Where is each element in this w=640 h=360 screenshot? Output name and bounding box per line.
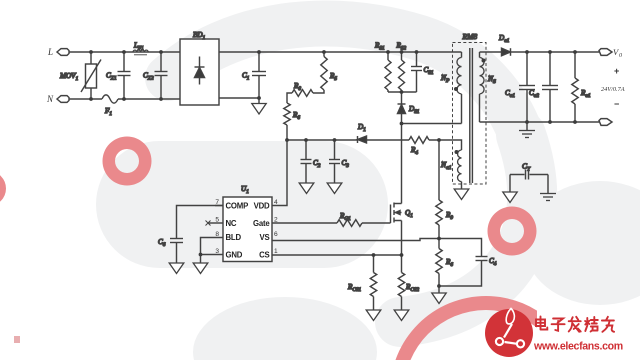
node N input terminal — [46, 94, 69, 104]
svg-text:VS: VS — [259, 233, 269, 242]
wire HV+ rail — [219, 51, 462, 53]
op-amp U1 controller IC — [215, 185, 278, 262]
resistor R10 — [436, 239, 454, 287]
bridge rectifier BD1 — [180, 31, 219, 105]
phase dot auxiliary — [455, 150, 459, 154]
transistor Q1 — [391, 203, 414, 256]
ground under GND pin — [193, 263, 208, 274]
ground under C6 — [169, 263, 184, 274]
wire snubber bus — [388, 91, 417, 93]
wire R8 to R6 — [287, 93, 292, 103]
pin 5 NC stub — [206, 221, 224, 226]
wire R5 to R8 — [313, 90, 324, 93]
capacitor C3 — [329, 140, 349, 183]
svg-text:6: 6 — [274, 231, 278, 238]
earth ground output — [526, 122, 528, 131]
diode DS1 — [398, 92, 420, 124]
wire drain to primary — [402, 94, 462, 124]
svg-text:Gate: Gate — [253, 219, 270, 228]
wire COMP to C6 — [177, 206, 224, 239]
resistor Ro1 — [572, 52, 591, 122]
svg-text:www.elecfans.com: www.elecfans.com — [533, 341, 623, 353]
winding Na auxiliary — [440, 150, 462, 189]
resistor RCS2 — [398, 255, 419, 310]
diode Do1 — [480, 34, 511, 56]
capacitor C1 — [242, 52, 266, 104]
pin 7 COMP stub — [215, 205, 223, 207]
ground under divider — [432, 293, 446, 304]
capacitor C2 — [301, 140, 321, 183]
wire aux node down — [438, 140, 440, 200]
wire D1 to R4 — [367, 139, 410, 141]
wire BLD to GND net — [201, 238, 224, 255]
svg-text:4: 4 — [274, 199, 278, 206]
svg-text:24V/0.7A: 24V/0.7A — [601, 86, 625, 93]
wire VDD pin drop — [272, 140, 287, 206]
ground under C3 — [327, 183, 342, 194]
winding Np primary — [440, 52, 462, 94]
resistor RS1 — [374, 42, 391, 93]
wire output + rail — [511, 51, 600, 53]
ground under C2 — [299, 183, 314, 194]
svg-text:GND: GND — [226, 250, 243, 259]
wire VDD rail — [287, 139, 357, 141]
wire bridge negative — [219, 97, 259, 99]
capacitor C6 — [158, 238, 183, 263]
resistor R5 — [321, 52, 338, 90]
svg-text:BLD: BLD — [226, 233, 242, 242]
transformer RM8 — [453, 32, 487, 184]
ground CY left — [503, 192, 517, 203]
wire divider ground stem — [438, 286, 440, 293]
resistor R8 — [292, 82, 313, 96]
junction dots — [257, 50, 441, 288]
capacitor C4 — [439, 239, 497, 287]
phase dot primary — [454, 87, 458, 91]
wire Gate line — [272, 222, 337, 224]
resistor RCS1 — [347, 255, 377, 310]
inductor LF1 — [133, 42, 148, 55]
resistor RS2 — [396, 42, 407, 93]
wire drain drop — [401, 124, 403, 204]
capacitor Co1 — [505, 52, 535, 122]
node Vo output terminal — [599, 47, 622, 59]
wire N rail — [69, 98, 180, 100]
varistor MOV1 — [59, 52, 101, 99]
ground under RCS1 — [366, 310, 381, 321]
ground under C1 — [252, 104, 266, 115]
wire CS line — [272, 254, 402, 256]
svg-text:0: 0 — [619, 53, 622, 59]
svg-text:VDD: VDD — [254, 201, 270, 210]
wire GND pin — [201, 255, 224, 264]
resistor R6 — [284, 103, 301, 125]
ground under aux winding — [454, 189, 469, 200]
wire RG1 to gate — [362, 222, 391, 224]
ground under RCS2 — [394, 310, 409, 321]
svg-text:RM8: RM8 — [462, 32, 478, 41]
svg-text:COMP: COMP — [226, 201, 249, 210]
svg-text:1: 1 — [274, 248, 278, 255]
wire CY left leg — [509, 175, 511, 193]
svg-text:+: + — [614, 66, 619, 76]
earth ground CY right — [540, 194, 556, 201]
winding Ns secondary — [480, 52, 497, 122]
node L input terminal — [47, 47, 69, 57]
svg-text:N: N — [46, 94, 54, 104]
junction dots output — [525, 50, 577, 124]
capacitor CS1 — [411, 52, 434, 92]
svg-text:−: − — [614, 99, 619, 109]
capacitor Co2 — [529, 52, 558, 122]
svg-text:CS: CS — [259, 250, 269, 259]
node output return terminal — [599, 119, 612, 126]
phase dot secondary — [482, 59, 486, 63]
svg-text:NC: NC — [226, 219, 237, 228]
elecfans watermark logo — [485, 309, 623, 358]
resistor RG1 — [337, 212, 362, 226]
capacitor CY — [510, 162, 548, 180]
wire R4 to aux node — [429, 140, 462, 150]
junction dots input — [89, 50, 163, 101]
wire L rail — [69, 51, 180, 53]
diode D1 — [357, 123, 367, 143]
fuse F1 — [102, 95, 118, 117]
resistor R9 — [436, 200, 454, 239]
wire VS line — [272, 239, 439, 241]
resistor R4 — [409, 137, 429, 156]
wire CY right leg — [547, 175, 549, 194]
capacitor CX1 — [106, 52, 131, 99]
svg-text:L: L — [47, 47, 53, 57]
capacitor CX2 — [143, 52, 168, 99]
wire R6 to VDD rail — [286, 125, 288, 140]
wire output - rail — [480, 121, 600, 123]
label output rating — [601, 66, 625, 109]
